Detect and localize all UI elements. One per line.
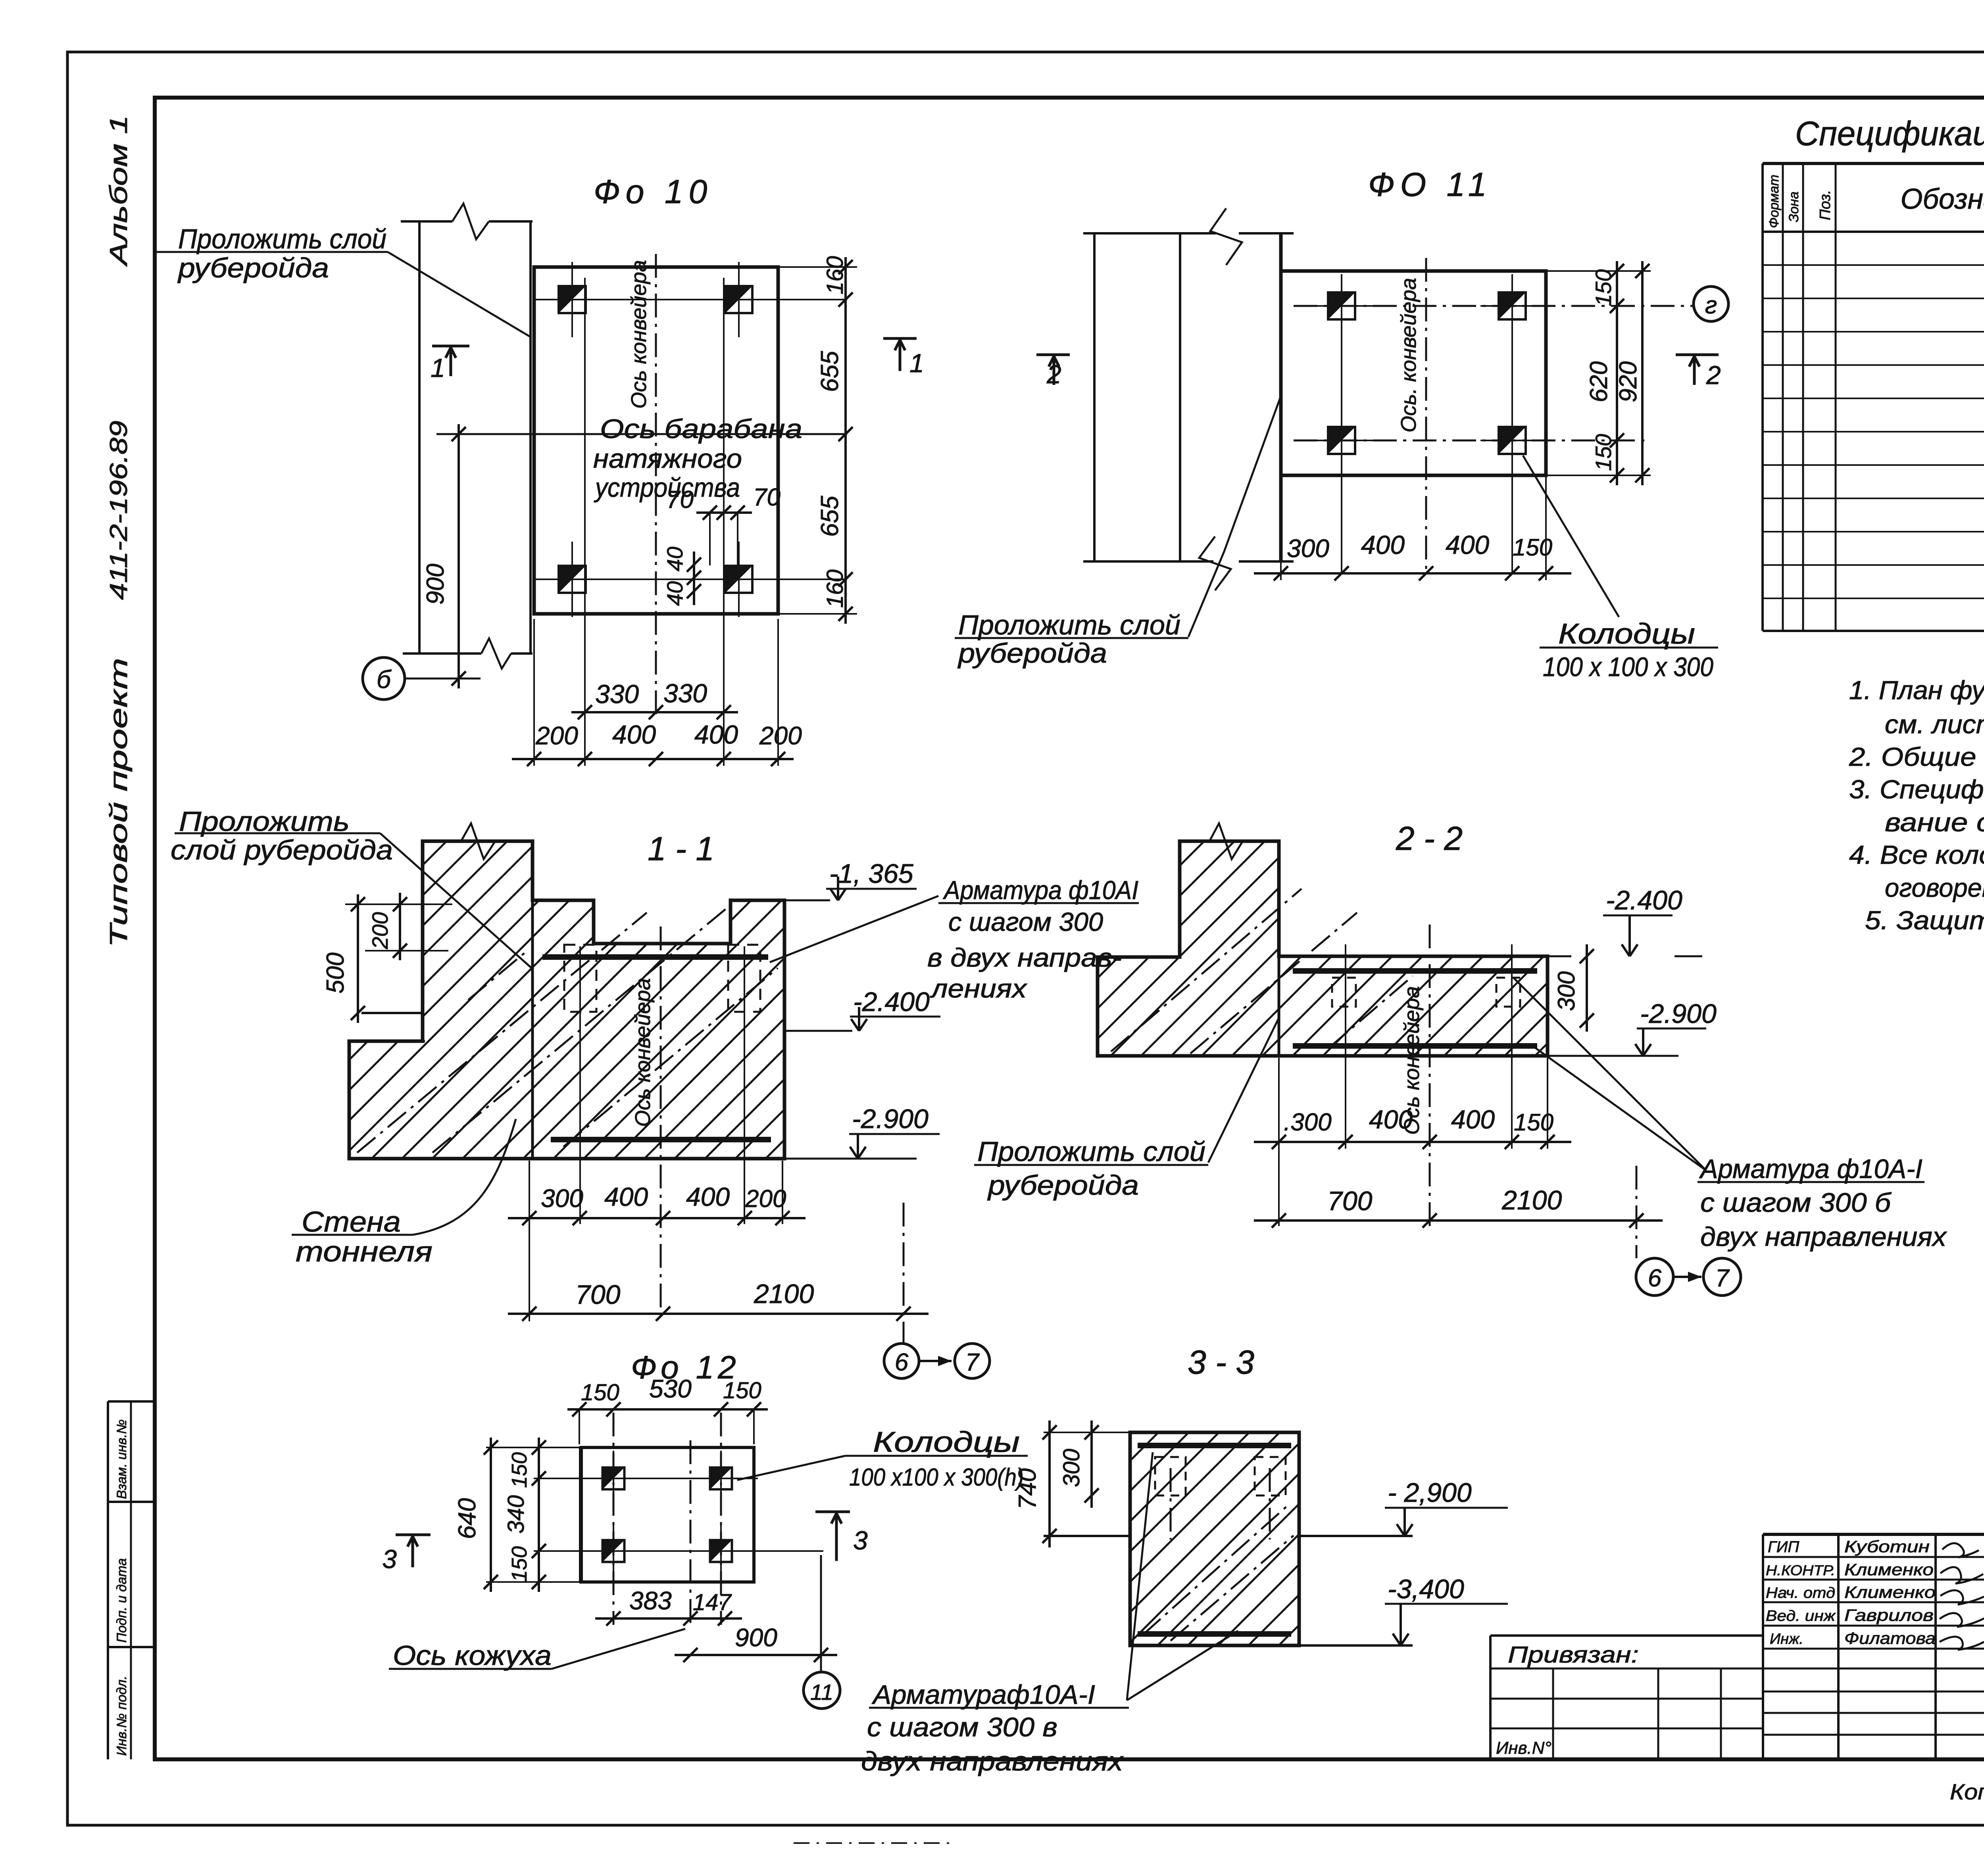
svg-text:б: б	[377, 665, 392, 694]
Fo11 wall top break	[1083, 232, 1213, 234]
svg-text:11: 11	[810, 1680, 833, 1705]
svg-text:160: 160	[822, 569, 848, 608]
Fo11 bottom dim 300-400-400-150	[1254, 572, 1571, 575]
svg-text:740: 740	[1014, 1469, 1041, 1509]
section 2-2 anchor well right	[1496, 978, 1520, 1007]
section mark 3 right	[815, 1511, 850, 1513]
section 2-2 anchor well left	[1332, 978, 1356, 1007]
svg-text:см. лист кже-25, кж- 25, кже-2: см. лист кже-25, кж- 25, кже-22.	[1885, 709, 1984, 739]
svg-text:Колодцы: Колодцы	[873, 1426, 1020, 1458]
section 3-3 left dim 300	[1090, 1420, 1093, 1508]
Fo12 section-3 connector line	[820, 1555, 822, 1672]
svg-text:411-2-196.89: 411-2-196.89	[105, 421, 133, 600]
svg-text:3: 3	[853, 1526, 868, 1555]
section 3-3 ground line left	[1044, 1535, 1130, 1537]
svg-text:640: 640	[454, 1498, 481, 1539]
svg-text:Ось конвейера: Ось конвейера	[627, 260, 651, 409]
svg-text:400: 400	[1451, 1105, 1495, 1134]
Fo12 bottom dim 383-147	[595, 1617, 742, 1620]
section mark 2 right	[1676, 354, 1719, 356]
Fo12 bolt axes vertical	[613, 1413, 615, 1625]
section 1-1 axis chain to circles	[903, 1203, 905, 1344]
section 1-1 wall top break	[461, 823, 495, 859]
Fo11 wall left line	[1093, 233, 1096, 561]
svg-text:лениях: лениях	[930, 974, 1028, 1003]
privyazan block	[1490, 1634, 1763, 1637]
section 3-3 top rebar	[1138, 1443, 1291, 1448]
fold mark dash bottom	[794, 1842, 952, 1844]
svg-text:Проложить слой: Проложить слой	[178, 223, 386, 254]
svg-text:-1, 365: -1, 365	[829, 859, 913, 889]
svg-text:Поз.: Поз.	[1817, 190, 1834, 220]
svg-text:Инв.№ подл.: Инв.№ подл.	[114, 1676, 129, 1756]
svg-text:3. Спецификацию фундаментов: 3. Спецификацию фундаментов под оборудо-	[1849, 775, 1984, 804]
section 2-2 concrete mass	[1098, 841, 1548, 1056]
Fo10 anchor bolt top-left	[559, 286, 586, 313]
svg-text:620: 620	[1585, 361, 1613, 402]
Fo12 center axis	[690, 1440, 692, 1625]
svg-text:500: 500	[322, 953, 349, 994]
svg-text:900: 900	[735, 1623, 777, 1652]
svg-text:руберойда: руберойда	[957, 638, 1107, 669]
Fo12 anchor bolt bottom-left	[603, 1540, 625, 1562]
Fo11 anchor bolt top-left	[1328, 292, 1355, 319]
section 2-2 bottom rebar	[1293, 1043, 1537, 1049]
svg-text:слой руберойда: слой руберойда	[171, 834, 393, 865]
svg-text:вание см. на листе кже-21.: вание см. на листе кже-21.	[1885, 807, 1984, 837]
svg-text:ГИП: ГИП	[1768, 1538, 1799, 1556]
svg-text:6: 6	[1648, 1265, 1662, 1292]
svg-text:1 - 1: 1 - 1	[648, 830, 714, 867]
leader ruberoid 1-1 line	[380, 833, 532, 968]
svg-text:Вед. инж: Вед. инж	[1766, 1608, 1836, 1624]
svg-text:40: 40	[662, 547, 687, 571]
axis circle 6 under 1-1	[884, 1344, 919, 1378]
svg-text:300: 300	[1553, 971, 1580, 1011]
staff table grid	[1762, 1534, 1764, 1759]
section 2-2 conveyor axis	[1429, 925, 1431, 1226]
svg-text:Взам. инв.№: Взам. инв.№	[114, 1419, 129, 1499]
svg-text:4. Все колодцы под анкерные: 4. Все колодцы под анкерные болты кроме	[1849, 840, 1984, 869]
svg-text:1: 1	[909, 348, 924, 378]
svg-text:400: 400	[1361, 530, 1405, 559]
svg-text:Типовой проект: Типовой проект	[105, 658, 133, 948]
svg-text:920: 920	[1615, 361, 1642, 402]
svg-text:ФО 11: ФО 11	[1368, 166, 1492, 203]
svg-text:Подп. и дата: Подп. и дата	[114, 1558, 129, 1643]
svg-text:Спецификация Фо10; ФО 11: Спецификация Фо10; ФО 11	[1795, 115, 1984, 153]
svg-text:100 х 100 х 300: 100 х 100 х 300	[1543, 652, 1713, 682]
section 2-2 dim 300-400-400-150	[1254, 1141, 1571, 1143]
svg-text:Ось конвейера: Ось конвейера	[631, 978, 655, 1127]
svg-text:40: 40	[662, 581, 687, 606]
Fo11 bolt row axis top	[1294, 305, 1694, 307]
svg-text:300: 300	[1059, 1449, 1084, 1487]
svg-text:с шагом 300: с шагом 300	[948, 907, 1103, 936]
svg-text:Проложить: Проложить	[179, 806, 350, 837]
svg-text:7: 7	[965, 1349, 980, 1376]
svg-text:700: 700	[575, 1280, 621, 1310]
Fo10 anchor bolt bottom-left	[559, 566, 586, 593]
svg-text:900: 900	[422, 564, 449, 605]
Fo10 right dimension line	[844, 257, 847, 624]
section 3-3 soil chain lines	[1143, 1504, 1290, 1635]
svg-text:Копировал Герман: Копировал Герман	[1950, 1779, 1984, 1804]
svg-text:3: 3	[382, 1544, 397, 1574]
svg-text:Колодцы: Колодцы	[1558, 618, 1695, 650]
svg-text:с шагом 300 в: с шагом 300 в	[867, 1712, 1057, 1742]
Fo10 wall left edge	[418, 221, 421, 654]
section 1-1 bottom rebar	[551, 1137, 771, 1142]
section 2-2 dim 700-2100	[1254, 1219, 1663, 1222]
svg-text:Арматураф10А-I: Арматураф10А-I	[871, 1680, 1095, 1710]
Fo11 anchor bolt bottom-left	[1328, 427, 1355, 454]
leader armature right lines	[1514, 978, 1706, 1171]
Fo11 leader line	[1188, 396, 1281, 637]
Fo11 wall bottom break	[1083, 560, 1213, 563]
svg-text:Зона: Зона	[1786, 192, 1801, 222]
section mark 1 right	[883, 337, 917, 340]
svg-text:1. План фундаментов под обору: 1. План фундаментов под оборудование	[1849, 675, 1984, 705]
staff signatures	[1942, 1543, 1979, 1557]
svg-text:Проложить слой: Проложить слой	[977, 1136, 1205, 1167]
svg-text:200: 200	[759, 721, 802, 750]
svg-text:200: 200	[745, 1185, 786, 1213]
svg-text:Гаврилов: Гаврилов	[1844, 1606, 1934, 1624]
svg-text:70: 70	[753, 484, 781, 511]
svg-text:-2.900: -2.900	[852, 1104, 929, 1134]
svg-text:г: г	[1705, 292, 1717, 319]
section mark 1 left	[432, 345, 469, 348]
Fo10 wall top break line	[401, 220, 452, 223]
svg-text:тоннеля: тоннеля	[296, 1236, 433, 1268]
section 2-2 soil chain lines	[1111, 889, 1302, 1051]
leader armature 3-3 lines	[1127, 1452, 1153, 1700]
Fo12 left edge thick	[579, 1447, 583, 1582]
section 1-1 top rebar	[542, 954, 768, 960]
svg-text:150: 150	[508, 1452, 531, 1488]
svg-text:оговоренных 140 х 80 мм.: оговоренных 140 х 80 мм.	[1885, 873, 1984, 902]
section 2-2 axis chain to circles	[1636, 1166, 1638, 1258]
margin small table	[108, 1400, 155, 1403]
svg-text:двух направлениях: двух направлениях	[1700, 1222, 1947, 1252]
Fo10 left dim 900	[458, 424, 460, 688]
Fo11 wells leader line	[1523, 456, 1619, 617]
svg-text:147: 147	[693, 1590, 732, 1615]
svg-text:150: 150	[723, 1378, 761, 1403]
svg-text:Арматура ф10АI: Арматура ф10АI	[942, 875, 1138, 905]
svg-text:с шагом 300 б: с шагом 300 б	[1700, 1188, 1892, 1218]
Fo10 bolt axis left	[584, 278, 586, 766]
section 1-1 conveyor axis	[660, 926, 662, 1317]
Fo12 slab outline	[581, 1447, 754, 1582]
Fo10 leader line	[388, 252, 530, 336]
svg-text:руберойда: руберойда	[987, 1170, 1139, 1201]
svg-text:Клименко: Клименко	[1844, 1583, 1936, 1601]
section 3-3 concrete block	[1130, 1432, 1299, 1645]
axis arrow 6-7 under 1-1	[919, 1360, 952, 1362]
leader armature left line	[770, 896, 938, 962]
Fo11 anchor bolt bottom-right	[1499, 427, 1526, 454]
Fo10 anchor bolt bottom-right	[725, 566, 752, 593]
Fo10 bolt row axis top	[544, 299, 847, 300]
svg-text:383: 383	[629, 1586, 672, 1615]
section 1-1 bolt axes	[579, 946, 581, 1224]
section 1-1 anchor well right	[728, 945, 760, 1012]
svg-text:Арматура ф10А-I: Арматура ф10А-I	[1699, 1154, 1922, 1184]
svg-text:655: 655	[816, 351, 844, 392]
svg-text:Инв.N°: Инв.N°	[1496, 1738, 1551, 1758]
Fo10 drum axis line	[436, 433, 847, 435]
Fo10 wall face line	[529, 221, 532, 654]
section 3-3 anchor well left	[1155, 1457, 1186, 1495]
section 1-1 left dim 500	[357, 894, 359, 1023]
Fo10 dim 330-330	[571, 711, 738, 713]
section 2-2 wall top break	[1209, 823, 1243, 859]
svg-text:340: 340	[503, 1495, 529, 1534]
svg-text:Инж.: Инж.	[1770, 1631, 1803, 1647]
svg-text:150: 150	[1591, 269, 1616, 306]
svg-text:655: 655	[816, 496, 844, 537]
svg-text:-2.400: -2.400	[1606, 885, 1682, 915]
svg-text:150: 150	[1514, 1109, 1553, 1136]
Fo10 dim 70-70	[696, 511, 752, 514]
spec table grid	[1761, 163, 1764, 631]
svg-text:Филатова: Филатова	[1844, 1629, 1936, 1647]
axis circle 6 under 2-2	[1636, 1258, 1673, 1296]
svg-text:2. Общие примечания см. на л: 2. Общие примечания см. на листе кж-23.	[1849, 742, 1984, 771]
section 1-1 anchor well left	[564, 945, 596, 1012]
Fo12 dim 900	[675, 1654, 837, 1656]
svg-text:2 - 2: 2 - 2	[1396, 820, 1463, 857]
svg-text:2: 2	[1046, 359, 1061, 389]
Fo12 anchor bolt top-right	[710, 1468, 732, 1490]
section 1-1 left dim 200	[399, 893, 401, 960]
Fo12 anchor bolt bottom-right	[710, 1540, 732, 1562]
svg-text:Клименко: Клименко	[1844, 1560, 1934, 1579]
svg-text:1: 1	[431, 353, 445, 383]
svg-text:530: 530	[649, 1374, 692, 1403]
section 1-1 concrete mass	[349, 841, 784, 1159]
leader ruberoid 2-2 line	[1208, 1018, 1279, 1163]
leader wells Fo12 line	[737, 1456, 845, 1480]
Fo10 anchor bolt top-right	[725, 286, 752, 313]
Fo12 anchor bolt top-left	[603, 1468, 625, 1490]
svg-text:300: 300	[541, 1184, 583, 1213]
section 2-2 bolt axes	[1345, 944, 1346, 1149]
svg-text:Ось барабана: Ось барабана	[600, 414, 802, 444]
svg-text:Привязан:: Привязан:	[1508, 1642, 1639, 1668]
svg-text:6: 6	[895, 1349, 909, 1376]
svg-text:3 - 3: 3 - 3	[1188, 1344, 1254, 1381]
svg-text:400: 400	[612, 720, 656, 749]
svg-text:330: 330	[663, 679, 707, 708]
Fo11 bolt axis right	[1511, 278, 1513, 575]
svg-text:7: 7	[1715, 1265, 1730, 1292]
svg-text:Фо 10: Фо 10	[594, 173, 713, 210]
section 2-2 wall face inner line	[1278, 956, 1280, 1056]
Fo10 bolt row axis bottom	[550, 579, 847, 580]
svg-text:200: 200	[535, 721, 578, 750]
svg-text:Куботин: Куботин	[1844, 1537, 1930, 1556]
section 3-3 left dim 740	[1048, 1420, 1051, 1547]
svg-text:Ось кожуха: Ось кожуха	[393, 1640, 552, 1671]
Fo11 wall face line	[1279, 233, 1283, 561]
svg-text:Стена: Стена	[302, 1206, 401, 1238]
svg-text:400: 400	[1369, 1105, 1413, 1134]
Fo11 right dim inner 150-620-150	[1616, 261, 1618, 485]
svg-text:-2.900: -2.900	[1640, 999, 1717, 1029]
svg-text:160: 160	[822, 256, 848, 294]
svg-text:натяжного: натяжного	[593, 444, 742, 474]
svg-text:Формат: Формат	[1767, 175, 1782, 228]
svg-text:100 х100 х 300(h): 100 х100 х 300(h)	[849, 1464, 1024, 1491]
Fo12 top dim 150-530-150	[567, 1408, 768, 1411]
Fo12 left dim inner 150-340-150	[538, 1438, 540, 1592]
section mark 3 left	[396, 1534, 431, 1536]
svg-text:70: 70	[666, 486, 694, 513]
Fo10 dim 40-40	[693, 552, 695, 605]
svg-text:Проложить слой: Проложить слой	[958, 609, 1180, 640]
Fo11 right dim outer 920	[1641, 261, 1644, 485]
svg-text:-2.400: -2.400	[853, 987, 930, 1017]
section 2-2 top rebar	[1293, 968, 1537, 974]
svg-text:в двух направ-: в двух направ-	[927, 943, 1122, 972]
svg-text:2100: 2100	[1501, 1185, 1562, 1215]
Fo12 bolt row axes	[534, 1478, 758, 1479]
Fo10 conveyor axis	[655, 254, 657, 714]
Fo11 conveyor axis	[1425, 258, 1427, 575]
section 3-3 bottom line right	[1299, 1644, 1413, 1647]
section 3-3 anchor well right	[1255, 1457, 1286, 1495]
svg-text:Альбом 1: Альбом 1	[105, 115, 133, 267]
svg-text:Обозначение: Обозначение	[1900, 183, 1984, 215]
Fo10 wall bottom break line	[403, 652, 481, 655]
svg-text:2: 2	[1706, 360, 1721, 390]
Fo11 axis circle G	[1694, 286, 1728, 321]
axis circle 11	[804, 1672, 840, 1709]
svg-text:400: 400	[1446, 530, 1489, 559]
Fo11 bolt row axis bottom	[1294, 440, 1651, 442]
svg-text:150: 150	[1591, 434, 1616, 471]
svg-text:700: 700	[1327, 1186, 1373, 1216]
Fo11 wall middle line	[1179, 233, 1181, 561]
svg-text:400: 400	[686, 1182, 730, 1211]
svg-text:400: 400	[694, 720, 738, 749]
Fo10 slab outline	[534, 267, 778, 614]
axis circle 7 under 2-2	[1703, 1258, 1741, 1296]
svg-text:-3,400: -3,400	[1388, 1574, 1464, 1604]
section 1-1 soil chain lines	[357, 913, 647, 1153]
svg-text:двух направлениях: двух направлениях	[861, 1746, 1124, 1776]
section 3-3 well axes dashes	[1170, 1468, 1172, 1540]
svg-text:5. Защитный слой бетона 25м: 5. Защитный слой бетона 25мм	[1865, 905, 1984, 935]
section 1-1 dim 300-400-400-200	[508, 1217, 806, 1219]
Fo11 bolt axis left	[1341, 278, 1342, 575]
Fo10 dim 200-400-400-200	[512, 758, 794, 760]
axis circle 7 under 1-1	[955, 1344, 990, 1378]
svg-text:200: 200	[367, 912, 392, 950]
svg-text:руберойда: руберойда	[177, 252, 329, 283]
section 1-1 tunnel floor line	[361, 1012, 423, 1014]
svg-text:Ось. конвейера: Ось. конвейера	[1397, 278, 1421, 432]
Fo11 anchor bolt top-right	[1499, 292, 1526, 319]
svg-text:150: 150	[1513, 534, 1552, 561]
svg-text:400: 400	[604, 1182, 648, 1211]
Fo11 slab outline	[1281, 271, 1546, 475]
svg-text:150: 150	[581, 1380, 619, 1405]
section 3-3 bottom rebar	[1138, 1631, 1291, 1637]
svg-text:150: 150	[508, 1546, 531, 1582]
section 1-1 floor lower line	[349, 1040, 425, 1042]
Fo12 left dim outer 640	[490, 1438, 492, 1592]
svg-text:.300: .300	[1284, 1109, 1332, 1136]
svg-text:2100: 2100	[754, 1279, 814, 1309]
svg-text:330: 330	[595, 679, 639, 709]
section 2-2 right dim 300	[1586, 944, 1588, 1032]
Fo10 axis circle 6	[363, 657, 405, 700]
Fo10 bolt axis right	[723, 278, 725, 766]
axis arrow 6-7 under 2-2	[1673, 1276, 1701, 1278]
svg-text:Нач. отд: Нач. отд	[1766, 1585, 1835, 1601]
section 1-1 dim 700-2100	[508, 1313, 929, 1315]
section 1-1 wall face inner line	[531, 900, 534, 1159]
svg-text:300: 300	[1287, 534, 1329, 563]
section mark 2 left	[1036, 354, 1070, 356]
svg-text:Н.КОНТР.: Н.КОНТР.	[1766, 1562, 1835, 1578]
svg-text:- 2,900: - 2,900	[1388, 1478, 1472, 1508]
